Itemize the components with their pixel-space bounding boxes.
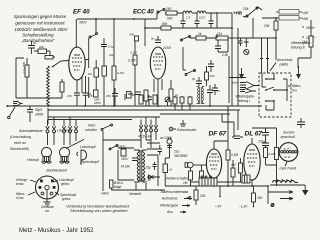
svg-text:45,5V 4m: 45,5V 4m — [138, 135, 152, 139]
svg-text:700: 700 — [129, 33, 134, 37]
svg-text:10μ: 10μ — [109, 53, 114, 57]
svg-text:25k: 25k — [263, 24, 270, 28]
svg-text:1n: 1n — [217, 89, 221, 93]
svg-text:100: 100 — [257, 196, 263, 200]
svg-text:Automatentaste: Automatentaste — [18, 129, 43, 133]
svg-text:21a: 21a — [173, 150, 180, 154]
svg-text:5p: 5p — [192, 77, 196, 81]
svg-text:+ 87: + 87 — [215, 205, 222, 209]
svg-text:+HB: +HB — [233, 11, 243, 16]
svg-text:27p: 27p — [66, 94, 72, 98]
svg-text:Erdschraube: Erdschraube — [177, 128, 196, 132]
svg-text:leitung I: leitung I — [238, 99, 250, 103]
svg-text:160: 160 — [166, 7, 172, 11]
svg-text:1k: 1k — [175, 93, 179, 97]
svg-text:anschluß: anschluß — [281, 135, 296, 139]
svg-text:200: 200 — [199, 194, 206, 198]
svg-text:a₂ +f −: a₂ +f − — [284, 147, 293, 151]
svg-text:0,2W: 0,2W — [128, 59, 136, 63]
svg-text:7k: 7k — [88, 92, 92, 96]
svg-text:1M: 1M — [183, 181, 188, 185]
svg-text:Steckfassung von unten gesehen: Steckfassung von unten gesehen — [70, 208, 128, 213]
svg-text:Hörkopf: Hörkopf — [27, 158, 40, 162]
svg-text:träge: träge — [114, 185, 121, 189]
svg-text:Sockel-: Sockel- — [283, 131, 296, 135]
svg-text:ECC 40: ECC 40 — [133, 9, 154, 16]
svg-text:90k: 90k — [162, 22, 168, 26]
svg-text:1k: 1k — [169, 168, 173, 172]
svg-text:Schalterstellung: Schalterstellung — [22, 33, 54, 38]
svg-text:Spannungen gegen Masse: Spannungen gegen Masse — [14, 14, 67, 19]
svg-text:6n: 6n — [33, 41, 37, 45]
svg-text:Steckerstift!): Steckerstift!) — [10, 147, 29, 151]
svg-text:Wiedergabe: Wiedergabe — [160, 204, 178, 208]
svg-text:ge/ws: ge/ws — [61, 182, 70, 186]
svg-text:roter Punkt: roter Punkt — [280, 167, 298, 171]
svg-text:g₂ g₁: g₂ g₁ — [285, 155, 291, 159]
svg-text:−Netz: −Netz — [100, 192, 109, 196]
svg-text:50μ5: 50μ5 — [35, 108, 42, 112]
svg-text:leitung E: leitung E — [291, 46, 306, 50]
svg-text:13,5: 13,5 — [199, 16, 205, 20]
svg-text:Mikro-: Mikro- — [292, 84, 302, 88]
svg-text:290 E 10: 290 E 10 — [137, 178, 151, 182]
svg-text:(Umschaltung: (Umschaltung — [10, 135, 31, 139]
svg-text:25n: 25n — [105, 94, 111, 98]
svg-text:Löschkopf: Löschkopf — [80, 145, 97, 149]
svg-text:260V~: 260V~ — [305, 26, 316, 30]
svg-text:½W: ½W — [302, 17, 309, 21]
svg-text:Tastenschalter: Tastenschalter — [160, 190, 183, 194]
svg-text:DF 67: DF 67 — [209, 131, 228, 138]
svg-text:Anschluß-: Anschluß- — [276, 58, 294, 62]
svg-text:schalter: schalter — [85, 128, 98, 132]
svg-text:Netzteil: Netzteil — [129, 192, 141, 196]
svg-text:2,5: 2,5 — [185, 16, 191, 20]
svg-text:−1,3V: −1,3V — [239, 205, 248, 209]
svg-text:350/3850: 350/3850 — [174, 154, 188, 158]
svg-text:0,2M: 0,2M — [269, 152, 276, 156]
svg-text:Metz - Musikus - Jahr 1952: Metz - Musikus - Jahr 1952 — [19, 227, 94, 234]
svg-text:platte: platte — [279, 63, 289, 67]
svg-text:M 18k: M 18k — [121, 165, 130, 169]
svg-text:1M: 1M — [88, 72, 93, 76]
svg-text:25k: 25k — [242, 7, 249, 11]
svg-text:2,5n: 2,5n — [221, 53, 228, 57]
svg-text:Löschkopf: Löschkopf — [57, 129, 74, 133]
svg-text:¼W: ¼W — [302, 11, 309, 15]
svg-text:20k: 20k — [38, 45, 44, 49]
svg-text:300V: 300V — [79, 21, 87, 25]
svg-text:„Sprechkopf“: „Sprechkopf“ — [79, 160, 100, 164]
svg-text:0,1μ: 0,1μ — [108, 45, 114, 49]
svg-text:1k: 1k — [198, 32, 202, 36]
svg-text:Wiedergabe-: Wiedergabe- — [291, 41, 312, 45]
svg-text:nicht an: nicht an — [14, 141, 26, 145]
svg-text:br/ws: br/ws — [233, 81, 240, 85]
svg-text:0,5M: 0,5M — [231, 153, 238, 157]
svg-text:110V: 110V — [121, 157, 129, 161]
svg-text:„Bandaufnahme“: „Bandaufnahme“ — [21, 38, 55, 43]
svg-text:0,2M: 0,2M — [117, 71, 124, 75]
svg-text:2,2M: 2,2M — [129, 51, 137, 55]
svg-text:sw: sw — [45, 209, 50, 213]
svg-text:100: 100 — [210, 74, 215, 78]
svg-text:gn/ws: gn/ws — [62, 197, 71, 201]
svg-text:1000Ω/V Meßbereich 300V: 1000Ω/V Meßbereich 300V — [14, 27, 68, 32]
svg-text:Aus: Aus — [166, 210, 173, 214]
svg-text:br/ws: br/ws — [16, 182, 24, 186]
svg-text:gemessen mit Instrument: gemessen mit Instrument — [15, 21, 65, 26]
svg-text:240M: 240M — [34, 113, 43, 117]
svg-text:fon: fon — [292, 89, 297, 93]
svg-text:5n: 5n — [151, 37, 155, 41]
svg-text:Wellenschalter:: Wellenschalter: — [166, 177, 189, 181]
svg-text:Bandlaufwerk: Bandlaufwerk — [47, 169, 68, 173]
svg-text:500: 500 — [167, 17, 173, 21]
svg-text:Aufnahme: Aufnahme — [161, 197, 178, 201]
svg-text:215V: 215V — [162, 46, 172, 50]
svg-text:r1/ws: r1/ws — [16, 196, 24, 200]
svg-text:285V: 285V — [93, 101, 102, 105]
svg-text:25μ: 25μ — [145, 166, 152, 170]
svg-text:EF 40: EF 40 — [73, 9, 90, 16]
svg-text:Wiedergabe-: Wiedergabe- — [236, 94, 256, 98]
svg-text:Netz-: Netz- — [88, 124, 97, 128]
svg-text:DL 67: DL 67 — [245, 131, 264, 138]
